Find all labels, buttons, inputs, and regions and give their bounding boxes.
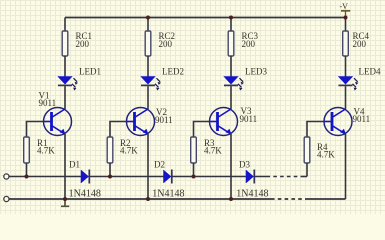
wire to R4 bottom	[301, 176, 307, 178]
svg-text:LED1: LED1	[79, 67, 101, 77]
power -V	[340, 2, 351, 17]
resistor R2	[107, 137, 113, 163]
wire R2 bottom lead	[109, 163, 111, 177]
wire R3 bottom lead	[193, 163, 195, 177]
wire RC4 bottom to LED4	[345, 56, 347, 77]
diode D3	[246, 170, 254, 184]
LED3	[224, 77, 244, 91]
wire top rail	[65, 17, 346, 19]
wire RC3 bottom to LED3	[230, 56, 232, 77]
diode D2	[164, 170, 172, 184]
svg-text:-V: -V	[340, 2, 349, 11]
wire V1 emitter down	[64, 134, 66, 199]
wire bottom rail	[9, 198, 271, 200]
wire V2 base	[110, 122, 127, 138]
wire RC1 top lead	[64, 18, 66, 32]
junction R3 at diode row	[192, 175, 196, 179]
svg-text:LED2: LED2	[162, 67, 184, 77]
wire V4 base	[307, 122, 324, 138]
transistor V3	[210, 108, 238, 136]
svg-text:D1: D1	[69, 160, 80, 170]
diode D1	[81, 170, 89, 184]
transistor V4	[324, 108, 352, 136]
terminal input 1	[4, 174, 9, 179]
transistor V2	[127, 108, 155, 136]
junction top rail at RC3	[229, 16, 233, 20]
svg-text:1N4148: 1N4148	[152, 188, 184, 199]
wire diode row dashed continuation	[267, 176, 302, 178]
wire LED1 to V1 collector	[64, 86, 66, 109]
svg-text:LED3: LED3	[245, 67, 267, 77]
wire bottom rail right	[306, 198, 346, 200]
wire LED3 to V3 collector	[230, 86, 232, 109]
wire LED4 to V4 collector	[345, 86, 347, 109]
wire RC4 top lead	[345, 18, 347, 32]
junction V1 emitter at bottom rail	[63, 197, 67, 201]
resistor R1	[24, 137, 30, 163]
wire RC3 top lead	[230, 18, 232, 32]
resistor RC3	[228, 31, 234, 56]
wire bottom rail dashed continuation	[271, 198, 306, 200]
wire V3 emitter down	[230, 134, 232, 199]
LED4	[339, 77, 359, 91]
wire R4 bottom lead	[306, 163, 308, 177]
resistor R3	[191, 137, 197, 163]
resistor R4	[304, 137, 310, 163]
wire R1 bottom lead	[26, 163, 28, 177]
transistor V1	[44, 108, 72, 136]
wire V2 emitter down	[147, 134, 149, 199]
wire LED2 to V2 collector	[147, 86, 149, 109]
resistor RC2	[145, 31, 151, 56]
wire diode row	[9, 176, 267, 178]
wire RC2 top lead	[147, 18, 149, 32]
svg-text:LED4: LED4	[359, 67, 381, 77]
ground bar under V1	[61, 199, 69, 206]
junction R2 at diode row	[108, 175, 112, 179]
junction top rail at power	[344, 16, 348, 20]
wire RC1 bottom to LED1	[64, 56, 66, 77]
junction R1 at diode row	[25, 175, 29, 179]
LED1	[58, 77, 78, 91]
wire V4 emitter down	[345, 134, 347, 199]
junction V2 emitter at bottom rail	[146, 197, 150, 201]
wire V1 base	[27, 122, 44, 138]
resistor RC1	[62, 31, 68, 56]
svg-text:D2: D2	[154, 160, 165, 170]
wire V3 base	[194, 122, 210, 138]
wire RC2 bottom to LED2	[147, 56, 149, 77]
svg-text:D3: D3	[239, 160, 250, 170]
resistor RC4	[343, 31, 349, 56]
terminal input 2	[4, 196, 9, 201]
LED2	[141, 77, 161, 91]
junction top rail at RC2	[146, 16, 150, 20]
svg-text:1N4148: 1N4148	[69, 188, 101, 199]
junction V3 emitter at bottom rail	[229, 197, 233, 201]
svg-text:1N4148: 1N4148	[236, 188, 268, 199]
